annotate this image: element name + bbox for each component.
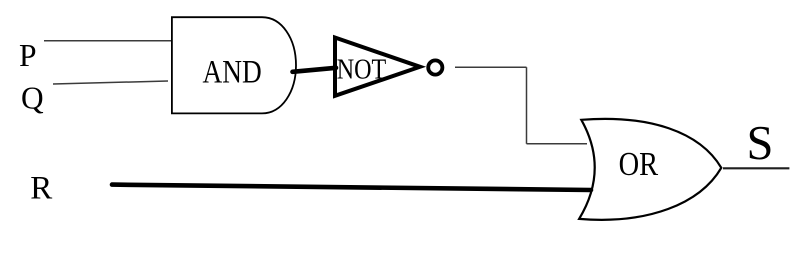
wire NOT bubble right horizontal <box>455 66 527 68</box>
svg-text:Q: Q <box>21 81 44 116</box>
AND gate U1 <box>172 17 296 113</box>
NOT bubble <box>428 60 442 74</box>
wire P to AND <box>44 40 172 42</box>
wire R to OR (thick) <box>112 185 591 190</box>
svg-text:NOT: NOT <box>337 55 387 86</box>
wire vertical segment <box>526 67 528 144</box>
svg-text:AND: AND <box>203 54 262 90</box>
wire OR output to S <box>723 167 789 169</box>
svg-text:P: P <box>19 38 37 73</box>
wire horizontal into OR upper input <box>527 143 588 145</box>
wire Q to AND <box>53 81 168 84</box>
wire AND output to NOT input <box>293 68 337 72</box>
NOT gate U2 <box>335 38 420 96</box>
svg-text:OR: OR <box>619 146 659 183</box>
OR gate U3 <box>579 119 721 220</box>
svg-text:R: R <box>30 170 52 206</box>
svg-text:S: S <box>747 117 774 170</box>
